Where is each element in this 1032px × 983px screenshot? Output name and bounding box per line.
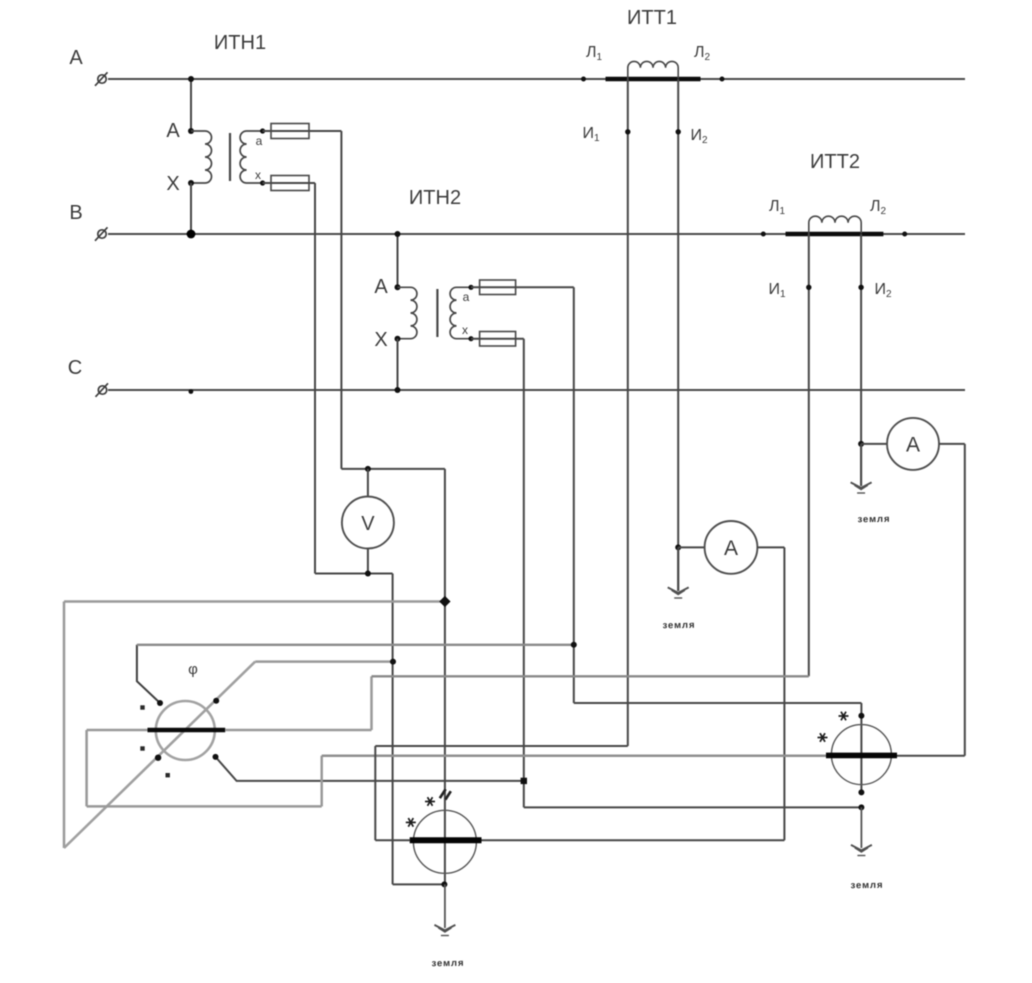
node W1 bottom junction xyxy=(441,881,447,887)
wire vertical from FU1 down to voltmeter top net xyxy=(340,131,342,469)
wire ИТТ1 И1 down xyxy=(627,79,629,746)
svg-text:В: В xyxy=(69,202,82,224)
node ИТН2 secondary terminal a xyxy=(468,285,473,290)
svg-text:С: С xyxy=(68,357,82,379)
phase meter circle xyxy=(156,701,215,760)
primary bar ИТТ1 xyxy=(606,77,701,82)
node ИТН1 primary terminal X xyxy=(188,180,194,186)
node junction on ИТН2-x vertical xyxy=(521,778,527,784)
wire vertical net V-bottom down (x=392.6) xyxy=(392,574,394,885)
terminal phase A xyxy=(95,72,108,86)
ammeter A2 xyxy=(887,418,939,470)
node ИТН2 primary terminal A xyxy=(395,284,401,290)
winding ИТН1 primary xyxy=(191,131,212,183)
wire horizontal net to ИТТ2 И1 xyxy=(372,675,809,677)
wire gray: phi bar left down xyxy=(85,730,88,806)
svg-text:x: x xyxy=(255,168,261,182)
node dot right of ИТТ2 bar xyxy=(902,232,907,237)
wire voltmeter top horizontal xyxy=(341,468,445,470)
node W2 bottom junction xyxy=(858,804,864,810)
phase meter current bar xyxy=(148,728,226,732)
wire horizontal to W1 bottom xyxy=(393,883,445,885)
wire vertical net V-top to W1 top (x=444.9) xyxy=(444,469,446,885)
wire net ИТН2-x vertical down xyxy=(523,339,525,808)
node junction on x393 vertical xyxy=(390,659,396,665)
wire ИТН1 X to phase B xyxy=(190,183,192,234)
wire ИТН2 X to phase C xyxy=(397,339,399,390)
marker star W2 b xyxy=(818,733,828,742)
wattmeter W2 current bar xyxy=(826,753,897,759)
wire voltmeter bottom stub xyxy=(367,549,369,574)
wire gray: riser x=371.5 xyxy=(370,676,373,730)
svg-text:А: А xyxy=(724,537,738,560)
svg-text:a: a xyxy=(256,134,263,148)
marker quote W1 top xyxy=(440,789,451,799)
winding ИТТ2 secondary xyxy=(809,216,861,234)
node dot right of ИТТ1 bar xyxy=(720,77,725,82)
node phi terminal upper-right xyxy=(213,698,219,704)
svg-text:Л1: Л1 xyxy=(586,44,603,63)
wire gray diagonal through phi xyxy=(64,662,255,848)
node junction on phase A xyxy=(188,76,194,82)
svg-text:ИТН1: ИТН1 xyxy=(214,32,266,54)
svg-text:Л2: Л2 xyxy=(870,198,887,217)
wire gray: riser x=321.7 xyxy=(320,756,323,807)
node ИТТ2 И2 xyxy=(858,285,863,290)
wire gray net vertical left side xyxy=(63,602,66,849)
winding ИТН2 primary xyxy=(398,287,417,338)
ground (W1) xyxy=(434,925,455,936)
node phi terminal lower-left xyxy=(155,755,161,761)
node dot left of ИТТ2 bar xyxy=(761,232,766,237)
svg-text:земля: земля xyxy=(857,514,890,526)
marker star phi 3 xyxy=(166,773,170,777)
wire gray net: V-top to phi lower-left, horizontal xyxy=(64,600,445,603)
node dot left of ИТТ1 bar xyxy=(581,77,586,82)
node voltmeter top junction xyxy=(365,466,371,472)
svg-text:φ: φ xyxy=(188,661,198,678)
wire net ИТН2-a vertical down xyxy=(573,287,575,703)
svg-text:ИТН2: ИТН2 xyxy=(409,187,461,209)
wire voltmeter bottom horizontal xyxy=(315,573,393,575)
node ИТН1 secondary terminal a xyxy=(260,128,265,133)
wire A1 left lead xyxy=(678,546,704,548)
winding ИТН1 secondary xyxy=(240,131,262,183)
wire W1 bar left lead xyxy=(375,839,409,841)
svg-text:a: a xyxy=(463,290,470,304)
node ИТН1 primary terminal A xyxy=(188,128,194,134)
svg-text:ИТТ1: ИТТ1 xyxy=(627,7,677,29)
node phi terminal lower-right xyxy=(213,754,219,760)
ground (W2) xyxy=(851,845,872,856)
svg-text:И1: И1 xyxy=(768,281,786,300)
svg-text:земля: земля xyxy=(431,958,464,970)
wire A1 output down xyxy=(783,547,785,840)
svg-text:земля: земля xyxy=(662,620,695,632)
wire W2 top drop xyxy=(860,703,862,792)
node ИТН2 secondary terminal x xyxy=(468,336,473,341)
wattmeter W1 current bar xyxy=(410,837,482,843)
svg-text:Л2: Л2 xyxy=(694,44,711,63)
node junction on phase B xyxy=(395,231,401,237)
svg-text:X: X xyxy=(374,329,387,351)
svg-text:ИТТ2: ИТТ2 xyxy=(810,151,860,173)
node diamond junction at x445 xyxy=(439,596,450,607)
marker star phi 2 xyxy=(140,746,144,750)
wire ground stem (ИТТ1 И2) xyxy=(677,547,679,591)
fuse FU3 (ИТН2 a) xyxy=(480,280,516,295)
node junction on phase B (large) xyxy=(187,230,196,239)
wire A1 right lead xyxy=(757,546,784,548)
primary bar ИТТ2 xyxy=(786,232,884,237)
node ammeter A1 junction on И2 xyxy=(675,544,681,550)
node junction on ИТН2-a vertical xyxy=(571,642,577,648)
svg-text:X: X xyxy=(166,173,179,195)
node ИТТ1 И2 xyxy=(676,129,681,134)
svg-text:И2: И2 xyxy=(690,127,708,146)
node ИТН2 primary terminal X xyxy=(395,336,401,342)
wire ИТН1 primary from phase A xyxy=(190,79,192,131)
phase bus C wire xyxy=(108,389,965,391)
voltmeter V xyxy=(342,497,394,549)
wattmeter W1 circle xyxy=(413,810,476,873)
phase bus B wire xyxy=(108,233,965,235)
svg-text:Л1: Л1 xyxy=(769,198,786,217)
wire A1 output to W1 bar right xyxy=(482,839,785,841)
core ИТН2 xyxy=(436,289,438,337)
marker star W1 b xyxy=(406,818,416,827)
wire vertical from FU2 down to voltmeter bottom net xyxy=(314,183,316,574)
node voltmeter bottom junction xyxy=(365,571,371,577)
wire ИТТ1 И2 down xyxy=(677,79,679,591)
wire ИТН2 primary from phase B xyxy=(397,234,399,287)
wire ИТН1 x to fuse xyxy=(263,182,315,184)
winding ИТТ1 secondary xyxy=(628,61,678,79)
wire A2 left lead xyxy=(861,443,887,445)
svg-text:V: V xyxy=(361,513,375,535)
node dot on phase C xyxy=(189,389,194,394)
wattmeter W2 circle xyxy=(831,725,891,785)
wire ИТТ2 И1 down xyxy=(808,234,810,676)
winding ИТН2 secondary xyxy=(450,287,471,338)
fuse FU2 (ИТН1 x) xyxy=(271,176,309,191)
node ИТТ2 И1 xyxy=(806,285,811,290)
svg-text:x: x xyxy=(462,323,468,337)
marker star W2 a xyxy=(839,712,849,721)
wire gray horizontal to V-bottom net xyxy=(255,660,393,663)
wire W2 ground stem xyxy=(860,807,862,848)
svg-text:А: А xyxy=(906,434,920,457)
svg-text:А: А xyxy=(166,120,180,142)
node ИТТ1 И1 xyxy=(625,129,630,134)
ammeter A1 xyxy=(705,521,758,574)
wire ground stem (ИТТ2 И2) xyxy=(860,444,862,486)
node W2 top terminal xyxy=(858,713,864,719)
node ИТН1 secondary terminal x xyxy=(260,180,265,185)
fuse FU4 (ИТН2 x) xyxy=(480,332,516,347)
svg-text:земля: земля xyxy=(850,880,883,892)
wire horizontal net ИТТ1-И1 xyxy=(375,745,628,747)
svg-text:И1: И1 xyxy=(582,125,600,144)
ground (ИТТ1) xyxy=(668,587,689,598)
wire A2 output down xyxy=(964,444,966,756)
wire ИТН2 a to fuse and to W2 top corner xyxy=(471,286,574,288)
wire ИТН2 x to fuse xyxy=(471,338,524,340)
terminal phase B xyxy=(95,227,108,241)
wire gray: phi bar right lead xyxy=(225,729,371,732)
wire phi upper-left lead xyxy=(137,645,160,703)
node ammeter A2 junction on И2 xyxy=(858,441,864,447)
wire gray: long line to W2 bar left xyxy=(322,754,827,757)
wire voltmeter top stub xyxy=(367,469,369,497)
phase bus A wire xyxy=(108,78,965,80)
ground (ИТТ2) xyxy=(851,482,872,493)
fuse FU1 (ИТН1 a) xyxy=(271,124,309,139)
wire A2 right lead xyxy=(939,443,965,445)
svg-text:А: А xyxy=(374,276,388,298)
node phi terminal upper-left xyxy=(157,700,163,706)
node W2 bottom terminal xyxy=(858,789,864,795)
wire W1 ground stem xyxy=(444,884,446,928)
core ИТН1 xyxy=(229,133,231,181)
wire A2 output to W2 bar right xyxy=(897,755,965,757)
wire horizontal net phi-UL to ИТН2-a xyxy=(137,644,574,646)
svg-text:А: А xyxy=(69,47,83,69)
wire gray: bottom horizontal xyxy=(87,805,322,808)
marker star phi 1 xyxy=(140,705,144,709)
node junction on phase C xyxy=(395,387,401,393)
wire ИТН1 a to fuse xyxy=(263,130,342,132)
wire gray: phi bar left lead xyxy=(87,729,148,732)
wire W1 left riser from ИТТ1 И1 net xyxy=(374,746,376,840)
svg-text:И2: И2 xyxy=(874,281,892,300)
wire phi lower-right lead diagonal xyxy=(216,757,524,781)
wire net ИТН2-a horizontal to W2 top xyxy=(574,702,862,704)
wire net ИТН2-x horizontal to W2 bottom xyxy=(524,806,862,808)
terminal phase C xyxy=(96,383,109,397)
wire ИТТ2 И2 down xyxy=(860,234,862,486)
marker star W1 a xyxy=(425,797,435,806)
